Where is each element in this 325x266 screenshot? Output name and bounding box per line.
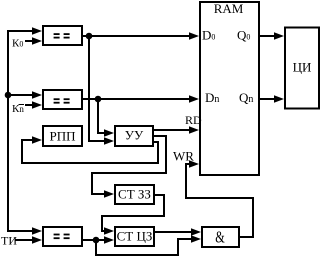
svg-text:ТИ: ТИ bbox=[1, 234, 17, 248]
svg-text:УУ: УУ bbox=[125, 128, 144, 143]
svg-text:РПП: РПП bbox=[49, 129, 75, 144]
svg-text:ЦИ: ЦИ bbox=[293, 60, 312, 75]
svg-text:К0: К0 bbox=[12, 38, 23, 50]
svg-text:RAM: RAM bbox=[214, 1, 244, 16]
svg-text:&: & bbox=[215, 228, 225, 247]
svg-text:СТ ЗЗ: СТ ЗЗ bbox=[118, 187, 151, 202]
svg-text:WR: WR bbox=[173, 149, 194, 164]
svg-text:СТ ЦЗ: СТ ЦЗ bbox=[117, 229, 153, 244]
svg-text:RD: RD bbox=[185, 113, 202, 127]
